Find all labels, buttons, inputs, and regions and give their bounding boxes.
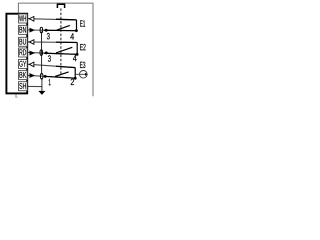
wire: loop from sensor box top, across top and down right side <box>18 3 93 96</box>
terminal cell WH <box>19 14 28 23</box>
label BU <box>19 39 25 45</box>
contact E3: lever <box>55 72 69 77</box>
arrow BU (open, left) <box>29 40 34 45</box>
contact E1: terminal corner <box>76 20 78 31</box>
label pin 3 (E1) <box>47 33 50 39</box>
label SH <box>19 83 26 89</box>
label WH <box>19 15 26 21</box>
label BK <box>20 72 27 78</box>
label pin 4 (E2) <box>73 55 77 61</box>
terminal cell SH <box>19 82 28 91</box>
label RD <box>19 49 26 55</box>
wire: shield branch inside box, down through box bottom to earth stub <box>16 82 20 97</box>
node E1 pin4 <box>75 29 78 32</box>
arrow RD (filled, right) <box>30 51 35 56</box>
ellipse on BK line <box>40 73 43 79</box>
ellipse on RD line <box>40 50 43 56</box>
wire: vertical link BN-RD-GY-BK (through ellipses) <box>41 32 43 75</box>
arrow BK (filled, right) <box>30 73 35 78</box>
wire GY line / E3 fixed contact bar <box>27 64 75 67</box>
label E3 <box>80 62 85 68</box>
magnet actuator symbol (bracket) <box>57 4 64 8</box>
label E1 <box>80 20 85 26</box>
node E3 pin2 <box>74 77 77 80</box>
arrow WH (open, left) <box>29 17 34 22</box>
wire BK line <box>27 75 75 78</box>
arrow: shield to ground (down) <box>39 91 46 95</box>
node E1 pin3 <box>45 29 48 32</box>
ellipse on BN line <box>40 27 43 33</box>
terminal cell GY <box>19 60 28 69</box>
node E3 pin1 <box>44 75 47 78</box>
wire: vertical from BK ellipse to shield down arrow <box>41 78 43 91</box>
terminal cell BN <box>19 25 28 34</box>
earth stub foot <box>15 96 18 98</box>
contact E2: terminal corner <box>76 43 78 55</box>
label pin 3 (E2) <box>48 55 51 61</box>
arrow GY (open, left) <box>29 62 34 67</box>
contact E1: lever <box>57 25 70 30</box>
wire RD line <box>27 52 77 54</box>
label pin 4 (E1) <box>70 33 74 39</box>
wire BU line / E2 fixed contact bar <box>27 41 77 44</box>
wire SH line <box>27 85 42 87</box>
terminal cell RD <box>19 48 28 57</box>
label pin 1 (E3) <box>49 79 51 85</box>
actuator direction symbol: circle with arrow <box>75 73 85 75</box>
sensor box <box>6 14 27 94</box>
label pin 2 (E3) <box>71 79 74 85</box>
arrow BN (filled, right) <box>30 28 35 33</box>
wire: mechanical link (dashed) <box>60 8 62 75</box>
label E2 <box>80 44 85 50</box>
contact E3: terminal corner <box>74 68 76 79</box>
terminal cell BK <box>19 71 28 80</box>
node E2 pin3 <box>45 52 48 55</box>
contact E2: lever <box>56 47 72 53</box>
wire BN line <box>27 29 76 32</box>
label GY <box>19 61 26 67</box>
wire WH line / E1 fixed contact bar <box>27 19 76 20</box>
label BN <box>19 27 25 33</box>
terminal cell BU <box>19 37 28 46</box>
node E2 pin4 <box>76 53 79 56</box>
